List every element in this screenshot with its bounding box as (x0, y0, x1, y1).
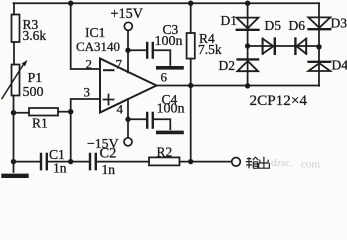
svg-text:CA3140: CA3140 (76, 39, 120, 54)
svg-text:D1: D1 (221, 13, 238, 28)
svg-text:1n: 1n (102, 162, 116, 177)
svg-text:7.5k: 7.5k (198, 42, 222, 57)
svg-text:D3: D3 (331, 16, 347, 31)
svg-text:D5: D5 (265, 18, 282, 33)
svg-text:−15V: −15V (87, 136, 119, 151)
svg-text:D2: D2 (219, 58, 236, 73)
svg-text:com: com (301, 159, 320, 171)
svg-text:7: 7 (116, 57, 123, 72)
svg-text:P1: P1 (28, 71, 43, 86)
svg-text:IC1: IC1 (85, 25, 105, 40)
svg-text:100n: 100n (155, 34, 183, 49)
svg-text:1n: 1n (53, 161, 67, 176)
svg-text:dzsc.: dzsc. (271, 157, 294, 169)
svg-text:100n: 100n (157, 102, 185, 117)
svg-text:D4: D4 (332, 58, 347, 73)
svg-text:6: 6 (161, 70, 168, 85)
svg-text:3.6k: 3.6k (23, 28, 47, 43)
svg-text:500: 500 (23, 85, 44, 100)
svg-text:D6: D6 (289, 18, 306, 33)
svg-text:2CP12×4: 2CP12×4 (250, 92, 308, 109)
svg-text:+15V: +15V (111, 6, 144, 22)
svg-text:R2: R2 (157, 145, 173, 160)
svg-text:R1: R1 (32, 116, 48, 131)
svg-text:4: 4 (117, 102, 124, 117)
svg-text:3: 3 (84, 85, 91, 100)
svg-text:2: 2 (86, 57, 93, 72)
